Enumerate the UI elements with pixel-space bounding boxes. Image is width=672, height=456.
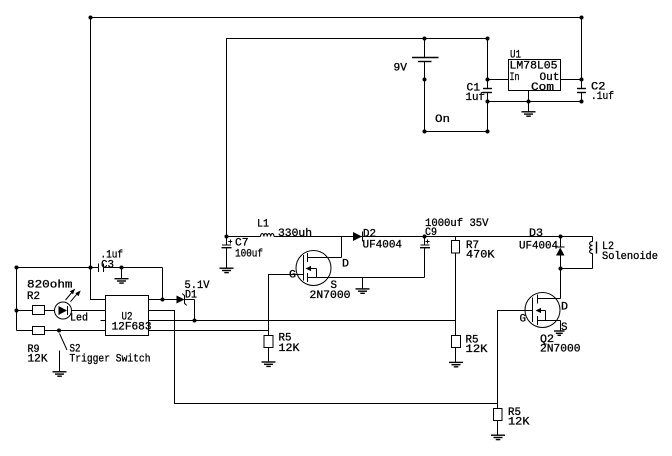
node +5V rail top-left junction xyxy=(89,16,93,20)
wire regulator ground rail xyxy=(488,101,582,103)
node D1-feedback junction xyxy=(193,319,197,323)
wire 9V rail xyxy=(227,39,488,237)
svg-text:G: G xyxy=(289,270,296,282)
resistor R5 gate1 12K xyxy=(264,336,273,348)
polarity plus C9 xyxy=(426,241,430,243)
ground C3 xyxy=(121,268,123,279)
wire C9 bottom lead xyxy=(424,248,426,278)
wire S2 bottom contact xyxy=(59,351,61,372)
wire Vdd row to pull-up loop xyxy=(17,267,91,269)
ground R5 gate1 xyxy=(262,362,276,366)
wire R9 to U2 pin xyxy=(45,330,106,332)
svg-text:1uf: 1uf xyxy=(466,92,486,104)
svg-text:Com: Com xyxy=(531,82,554,94)
wire U2 output row to Q2 gate long run xyxy=(149,311,533,404)
node U1 Out junction xyxy=(580,78,584,82)
svg-text:12K: 12K xyxy=(466,344,488,356)
wire U1 output vertical xyxy=(581,18,583,89)
wire Q2 source lead xyxy=(560,321,562,332)
svg-text:.1uf: .1uf xyxy=(591,91,614,103)
svg-text:2N7000: 2N7000 xyxy=(310,290,351,302)
svg-text:820ohm: 820ohm xyxy=(27,280,73,292)
wire R5 gate2 top lead xyxy=(497,404,499,409)
microcontroller U2 12F683 box xyxy=(106,296,149,336)
node +5V rail top-right junction xyxy=(580,16,584,20)
wire U2 Vss row to D1 anode xyxy=(149,299,177,301)
svg-text:G: G xyxy=(520,314,527,326)
svg-text:12F683: 12F683 xyxy=(112,322,152,334)
resistor R7 470K xyxy=(455,237,457,241)
svg-text:470K: 470K xyxy=(466,250,495,262)
node battery positive tap xyxy=(423,37,427,41)
svg-text:In: In xyxy=(510,72,520,84)
wire D1 cathode lead xyxy=(184,299,195,301)
wire C2 bottom lead xyxy=(581,93,583,102)
resistor R5 gate2 12K xyxy=(494,409,503,421)
wire R7 to R5 divider xyxy=(455,253,457,336)
node switch top terminal xyxy=(423,78,427,82)
node rail-D3 junction xyxy=(559,235,563,239)
wire pull-up loop left vertical xyxy=(16,268,18,331)
wire D1 cathode down to feedback row xyxy=(194,300,196,321)
resistor R9 12K xyxy=(33,327,45,335)
wire LED to U2 pin xyxy=(72,310,106,312)
svg-text:9V: 9V xyxy=(394,63,408,75)
wire C3 to ground branch xyxy=(104,267,163,269)
node pull-up loop top-left corner xyxy=(15,266,19,270)
capacitor C3 .1uf xyxy=(91,267,99,269)
wire U1 Out pin xyxy=(561,79,582,81)
ground C7 xyxy=(220,268,234,272)
svg-text:D: D xyxy=(342,259,349,271)
ground U1 Com xyxy=(522,112,536,116)
node D3 anode junction xyxy=(559,267,563,271)
capacitor C7 100uf electrolytic xyxy=(226,237,228,246)
wire U2 output row to Q1 gate net xyxy=(149,330,269,332)
diode D3 UF4004 flyback xyxy=(560,237,562,248)
switch S2 lever (open) xyxy=(60,334,68,351)
svg-text:Trigger Switch: Trigger Switch xyxy=(70,354,151,366)
wire R5 gate2 bottom lead xyxy=(497,421,499,436)
svg-text:100uf: 100uf xyxy=(235,249,263,261)
svg-text:UF4004: UF4004 xyxy=(363,240,403,252)
wire Q1 gate down to R5 xyxy=(269,275,304,336)
svg-text:C9: C9 xyxy=(425,227,437,239)
node R2 branch junction xyxy=(15,309,19,313)
svg-text:D3: D3 xyxy=(529,228,543,240)
svg-text:12K: 12K xyxy=(28,354,48,366)
node C1 ground junction xyxy=(486,100,490,104)
svg-text:D: D xyxy=(561,302,568,314)
svg-text:330uh: 330uh xyxy=(278,228,312,240)
LED emission arrow 2 xyxy=(71,292,79,302)
wire L2 bottom return xyxy=(561,268,593,270)
node switch bottom corner xyxy=(423,130,427,134)
wire return up to ground rail xyxy=(487,102,489,132)
svg-text:Led: Led xyxy=(70,313,88,325)
wire R2 to LED xyxy=(45,310,55,312)
node C3 ground junction xyxy=(120,266,124,270)
wire U2 feedback row to R7/R5 divider xyxy=(149,320,456,322)
svg-text:12K: 12K xyxy=(279,343,300,355)
battery 9V xyxy=(424,39,426,58)
diode D2 UF4004 xyxy=(353,232,362,241)
wire Q1 source to C9 ground run xyxy=(308,277,425,279)
svg-text:LM78L05: LM78L05 xyxy=(510,61,558,73)
svg-text:Solenoide: Solenoide xyxy=(602,251,658,263)
resistor R2 820ohm xyxy=(33,306,45,315)
wire R5 gate1 bottom lead xyxy=(268,348,270,363)
wire battery negative return xyxy=(425,131,488,133)
wire +5V top rail xyxy=(91,17,582,19)
svg-text:2N7000: 2N7000 xyxy=(540,344,581,356)
wire main 9V rail right segment xyxy=(274,236,561,238)
capacitor C2 .1uf xyxy=(577,88,586,90)
ground R5 gate2 xyxy=(491,435,505,439)
inductor L2 solenoid top wire xyxy=(561,236,593,238)
node 9V rail right corner xyxy=(486,37,490,41)
ground R5 divider xyxy=(449,362,463,366)
node rail-C9 junction xyxy=(423,235,427,239)
wire R5 divider bottom lead xyxy=(455,348,457,363)
svg-text:S: S xyxy=(561,322,568,334)
inductor L2 coil xyxy=(592,237,594,242)
svg-text:D1: D1 xyxy=(185,290,197,302)
wire main 9V rail left segment xyxy=(227,236,261,238)
node C2 ground junction xyxy=(580,100,584,104)
node Vdd-C3 junction xyxy=(89,266,93,270)
switch On (closed power switch) xyxy=(424,62,426,132)
wire C1 bottom lead xyxy=(487,93,489,132)
capacitor C9 1000uf 35V electrolytic xyxy=(424,237,426,246)
wire R9 left lead xyxy=(17,330,33,332)
regulator U1 LM78L05 box xyxy=(509,60,561,91)
node rail-C7 junction xyxy=(225,235,229,239)
node Com ground junction xyxy=(527,100,531,104)
node S2 branch junction xyxy=(57,329,61,333)
node return corner xyxy=(486,130,490,134)
wire R2 left lead xyxy=(17,310,33,312)
pin stub U2 left unused xyxy=(101,320,106,322)
ground S2 xyxy=(53,372,67,376)
diode D1 5.1V zener xyxy=(177,296,185,304)
transistor Q2 2N7000 xyxy=(525,293,560,328)
node Vss-ground junction xyxy=(161,298,165,302)
node U1 In junction xyxy=(486,78,490,82)
wire 9V feed down to U1 In xyxy=(487,39,489,89)
svg-text:L1: L1 xyxy=(257,219,269,231)
LED emission arrow 1 xyxy=(66,291,74,301)
ground Q1 source xyxy=(362,278,364,289)
inductor L1 330uh xyxy=(261,234,275,237)
wire C7 bottom lead xyxy=(226,248,228,269)
wire D3 anode to Q2 drain xyxy=(560,269,562,299)
wire U1 In pin xyxy=(488,79,509,81)
svg-text:UF4004: UF4004 xyxy=(519,241,558,253)
polarity plus C7 xyxy=(228,241,232,243)
ground Q2 source xyxy=(554,331,565,335)
wire U1 Com pin down xyxy=(528,91,530,112)
wire +5V left vertical down to U2 Vdd pin xyxy=(91,18,106,300)
svg-text:C3: C3 xyxy=(101,260,114,272)
svg-text:R2: R2 xyxy=(27,291,40,303)
LED indicator xyxy=(55,302,72,319)
capacitor C1 1uf xyxy=(483,88,492,90)
svg-text:On: On xyxy=(435,114,450,126)
svg-text:12K: 12K xyxy=(508,417,530,429)
wire ground net down to U2 Vss row xyxy=(162,268,164,300)
transistor Q1 2N7000 xyxy=(296,251,331,286)
resistor R5 divider 12K xyxy=(452,336,461,348)
